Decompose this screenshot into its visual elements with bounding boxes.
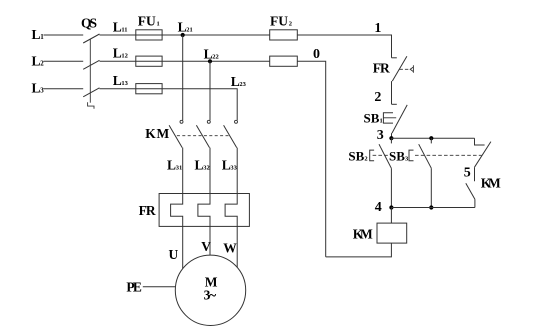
node 3 label [377,128,384,143]
svg-text:23: 23 [239,81,246,88]
contact KM series blade [466,183,475,199]
relay FR heater 3 [225,194,237,227]
wire node3 horizontal [391,137,474,139]
svg-text:4: 4 [375,200,382,215]
button SB3 blade [419,144,432,168]
svg-text:13: 13 [121,80,128,87]
svg-text:L: L [113,46,122,61]
svg-text:PE: PE [126,279,141,294]
wire L22 down [209,61,211,120]
wire node4 to coil [390,208,392,224]
svg-text:L: L [32,53,41,68]
button SB1 actuator bracket [383,113,393,123]
wire node4 horizontal [391,207,475,209]
contactor KM pole 1 blade [169,125,182,147]
contactor KM link dashed [177,135,231,137]
wire W to motor [236,226,238,267]
svg-text:L: L [204,46,213,61]
node L21 label [178,19,193,34]
contactor KM pole 3 contact circle [235,120,238,123]
svg-text:L: L [113,19,122,34]
fuse FU1 label [138,14,160,29]
button SB2 actuator bracket [370,150,374,161]
svg-text:12: 12 [121,53,128,60]
switch QS pole 2 blade [83,60,99,69]
svg-text:1: 1 [157,21,160,28]
contactor KM pole 2 contact circle [207,120,210,123]
svg-text:L: L [231,74,240,89]
node 1 label [374,21,381,36]
svg-text:SB: SB [348,148,364,163]
svg-text:KM: KM [145,126,169,141]
junction node3 right [429,136,433,140]
wire L2 in [44,60,84,62]
svg-text:5: 5 [464,166,471,181]
svg-text:FU: FU [270,14,288,29]
relay FR contact foot [392,57,397,59]
wire V to motor [209,226,211,255]
node L31 label [167,157,182,172]
wire QS3 to L23 corner [100,89,238,121]
button SB2 blade [379,144,391,168]
button SB1 label [364,110,383,125]
svg-text:KM: KM [353,226,373,241]
svg-text:2: 2 [374,90,381,105]
svg-text:L: L [167,157,176,172]
wire SB1 to node3 [391,133,393,138]
button SB2 stub [390,138,392,143]
wire L1 in [44,34,84,36]
button SB2 wire down [390,168,392,207]
link dashed SB2 [373,154,388,156]
switch QS handle [88,102,94,109]
svg-text:FR: FR [139,203,156,218]
svg-text:1: 1 [40,33,44,41]
svg-text:32: 32 [203,164,210,171]
contactor KM main label [145,126,169,141]
wire L21 down [182,35,184,120]
svg-text:L: L [195,157,204,172]
relay FR heater 2 [198,194,210,227]
node PE label [126,279,141,294]
wire coil to 0 rail [326,243,392,257]
junction node4 mid [429,205,433,209]
node L33 label [222,157,238,172]
node 5 label [464,166,471,181]
node L23 label [231,74,247,89]
link dashed SB3 to KM aux [415,154,482,156]
contact KM series label [481,176,501,191]
wire QS1 to FU1 [100,34,270,36]
svg-text:L: L [222,157,231,172]
node 4 label [375,200,382,215]
svg-text:W: W [223,241,237,256]
svg-text:11: 11 [121,26,127,33]
fuse FU1b body [136,56,162,66]
wire KM3 down [236,148,238,194]
svg-text:U: U [169,247,179,262]
svg-text:33: 33 [230,164,237,171]
fuse FU2b body [270,56,298,66]
node L11 label [113,19,128,34]
relay FR label [139,203,156,218]
node 0 label [313,47,320,62]
svg-text:3: 3 [377,128,384,143]
relay FR contact blade [392,56,407,81]
svg-text:FR: FR [373,61,390,76]
motor M circle [175,255,245,325]
fuse FU1c body [136,84,162,94]
svg-text:L: L [178,19,187,34]
fuse FU2 label [270,14,292,29]
relay FR heater 1 [171,194,183,227]
svg-text:2: 2 [40,59,44,67]
svg-text:3: 3 [40,87,44,95]
button SB3 actuator bracket [409,150,414,161]
wire U to motor [182,226,184,268]
motor 3~ label [204,288,217,303]
node L1 label [32,27,45,42]
svg-text:1: 1 [374,21,381,36]
coil KM label [353,226,373,241]
terminal W label [223,241,237,256]
wire node5 [474,167,476,181]
button SB3 stub [430,138,432,143]
svg-text:KM: KM [481,176,501,191]
svg-text:2: 2 [364,155,367,162]
svg-text:QS: QS [81,16,97,31]
node 2 label [374,90,381,105]
svg-text:0: 0 [313,47,320,62]
contact KM aux top lead [475,138,485,145]
wire PE [143,286,176,288]
svg-text:L: L [32,27,41,42]
switch QS pole 1 blade [83,34,99,43]
wire 0 rail [297,61,325,257]
switch QS label [81,16,97,31]
svg-text:2: 2 [289,21,292,28]
terminal U label [169,247,179,262]
switch QS pole 3 blade [83,88,99,97]
node L13 label [113,73,129,88]
coil KM body [377,223,407,243]
wire KM series down [474,199,476,207]
wire node1 to FR [297,35,391,58]
svg-text:3: 3 [405,155,409,162]
svg-text:L: L [32,81,41,96]
motor M label [205,275,218,290]
node L3 label [32,81,45,96]
svg-text:FU: FU [138,14,156,29]
svg-text:SB: SB [364,110,380,125]
svg-text:L: L [113,73,122,88]
node L22 label [204,46,219,61]
node L32 label [195,157,210,172]
contactor KM pole 1 contact circle [180,120,183,123]
node L12 label [113,46,128,61]
junction node4 left [389,205,393,209]
terminal V label [201,239,211,254]
wire KM1 down [182,148,184,194]
svg-text:21: 21 [186,26,193,33]
svg-text:3~: 3~ [204,288,217,303]
button SB3 label [389,148,409,163]
junction L21 [181,33,185,37]
junction node3 left [389,136,393,140]
relay FR contact actuator hook [410,65,413,73]
button SB1 foot [392,103,397,105]
fuse FU1a body [136,30,162,40]
contactor KM pole 3 blade [224,125,237,147]
svg-text:22: 22 [212,53,219,60]
wire QS2 to FU1 [100,60,270,62]
fuse FU2a body [270,30,298,40]
contact KM aux blade [475,142,491,168]
junction L22 [208,59,212,63]
wire KM2 down [209,148,211,194]
wire FR to SB1 [391,81,393,104]
svg-text:1: 1 [380,117,383,124]
wire L3 in [44,88,84,90]
svg-text:SB: SB [389,148,405,163]
button SB3 wire down [430,168,432,207]
node L2 label [32,53,45,68]
switch QS link bar [89,39,91,103]
button SB1 blade [392,105,407,133]
button SB1 actuator stem [383,117,396,119]
relay FR contact actuator dashes [400,68,411,70]
contactor KM pole 2 blade [196,125,209,147]
relay FR box [159,194,249,227]
relay FR contact label [373,61,390,76]
button SB2 label [348,148,367,163]
svg-text:31: 31 [176,164,183,171]
